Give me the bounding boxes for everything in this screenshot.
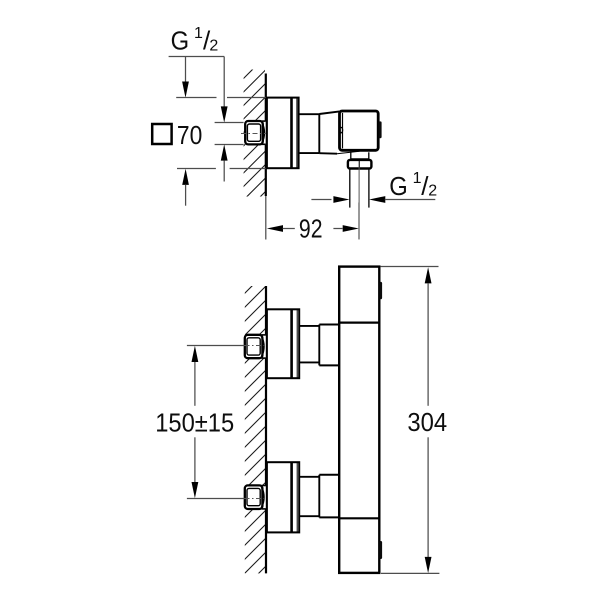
thin slant line under handle xyxy=(337,151,360,153)
dimension 304 xyxy=(381,267,448,574)
dim line at x=224.2 with down arrow xyxy=(223,57,225,109)
upper escutcheon thick inner line xyxy=(290,310,293,379)
upper narrow pipe xyxy=(299,325,319,327)
body button upper xyxy=(380,282,383,299)
svg-text:150±15: 150±15 xyxy=(155,408,234,438)
handle square (side view) xyxy=(340,111,379,150)
upper escutcheon (front view) xyxy=(267,309,299,378)
svg-text:2: 2 xyxy=(209,37,218,54)
extension line nut top (G1/2) xyxy=(215,122,244,124)
dimension G 1/2 (right, outlet) xyxy=(311,170,437,203)
dimension 150±15 xyxy=(155,346,234,498)
dimension 92 xyxy=(267,203,359,244)
right arrow pointing left at pipe xyxy=(369,196,385,203)
inlet centerline (dash-dot) xyxy=(241,133,266,135)
svg-text:2: 2 xyxy=(428,183,437,200)
top extension line xyxy=(381,266,439,268)
body button lower xyxy=(380,541,383,559)
body divider upper xyxy=(339,322,379,324)
body taper section xyxy=(319,111,339,153)
bottom extension line xyxy=(381,572,439,574)
extension line top of escutcheon (70) xyxy=(176,97,216,99)
lower collar xyxy=(319,474,339,476)
extension line nut bottom (G1/2) xyxy=(215,144,244,146)
inlet nut (side view, behind wall) xyxy=(245,121,266,145)
upper collar xyxy=(319,324,339,326)
outlet pipe xyxy=(349,169,351,208)
svg-text:92: 92 xyxy=(299,214,323,244)
wall hatching (bottom view) xyxy=(230,266,272,600)
wall hatching (top view) xyxy=(230,52,270,241)
escutcheon thick inner line xyxy=(290,98,293,168)
handle grip oval xyxy=(339,127,342,132)
svg-text:304: 304 xyxy=(407,407,447,437)
body cylinder section xyxy=(299,114,320,154)
svg-text:G: G xyxy=(389,171,408,201)
upper centerline: solid extension + dash-dot xyxy=(187,345,245,347)
wall line (bottom view) xyxy=(265,286,267,573)
lower narrow pipe xyxy=(299,476,319,478)
dimension G 1/2 (top left) xyxy=(169,25,228,123)
svg-text:G: G xyxy=(171,26,190,56)
extension line bottom of escutcheon (70) xyxy=(177,168,216,170)
wall extension line down to 92 dim xyxy=(265,196,267,240)
outlet elbow tube xyxy=(351,152,369,160)
lower inlet nut (front view) xyxy=(245,485,266,509)
wall line (top view) xyxy=(265,74,267,197)
handle inner left line xyxy=(342,113,344,148)
lower escutcheon thin inner line xyxy=(296,463,298,532)
dim line at x=185.5 with down arrow xyxy=(185,57,187,85)
up arrow to escutcheon bottom at x=185.6 xyxy=(182,169,189,185)
left arrow pointing right at pipe xyxy=(311,199,331,201)
upper step line xyxy=(318,325,320,366)
main body bar (front view) xyxy=(339,267,379,573)
escutcheon (side view) xyxy=(267,98,299,169)
body divider lower xyxy=(339,517,379,519)
svg-text:70: 70 xyxy=(177,120,202,150)
outlet pipe centerline xyxy=(358,161,360,239)
outlet nut divider xyxy=(358,160,360,168)
lower centerline: solid extension + dash-dot xyxy=(187,498,245,500)
up arrow to nut bottom at x=224.2 xyxy=(221,144,228,160)
handle temperature button xyxy=(379,121,382,138)
upper escutcheon thin inner line xyxy=(296,310,298,378)
lower escutcheon (front view) xyxy=(267,462,299,532)
leader line under G 1/2 xyxy=(169,56,225,58)
escutcheon thin inner line xyxy=(296,98,298,168)
square symbol of 70 xyxy=(152,124,171,144)
lower escutcheon thick inner line xyxy=(290,462,293,532)
lower step line xyxy=(318,475,320,518)
upper inlet nut (front view) xyxy=(245,335,266,359)
outlet nut xyxy=(348,160,372,169)
svg-text:1: 1 xyxy=(194,25,203,42)
